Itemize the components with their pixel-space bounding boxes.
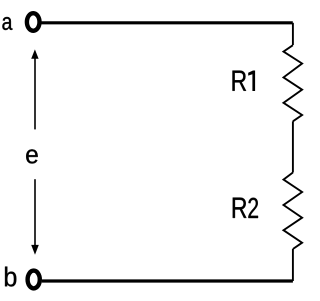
label R2 xyxy=(233,198,258,218)
label R1 xyxy=(233,71,256,92)
arrow down (e lower) xyxy=(31,179,39,255)
node a label xyxy=(2,17,12,30)
node e label xyxy=(26,149,38,163)
terminal a xyxy=(27,13,40,31)
wire bottom (b to right branch) xyxy=(42,279,293,282)
wire right lead bottom xyxy=(292,249,294,281)
node b label xyxy=(5,267,16,287)
arrow up (e upper) xyxy=(31,49,38,129)
wire right lead top xyxy=(292,23,294,45)
resistor R1 xyxy=(284,45,303,121)
wire right lead middle xyxy=(292,121,294,172)
terminal b xyxy=(28,271,40,289)
resistor R2 xyxy=(284,173,303,250)
wire top (a to right branch) xyxy=(42,21,293,24)
